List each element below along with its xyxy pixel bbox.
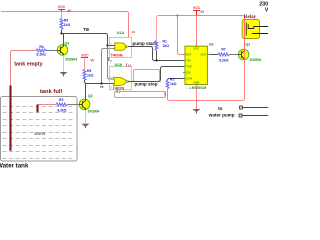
svg-text:LM555CM: LM555CM — [190, 86, 207, 90]
svg-text:Q4: Q4 — [65, 41, 70, 45]
svg-text:RST: RST — [186, 53, 192, 57]
svg-text:VCC: VCC — [81, 54, 89, 58]
svg-text:14: 14 — [128, 63, 132, 67]
svg-text:R3: R3 — [59, 98, 63, 102]
wire U2A pin14 VCC stub — [126, 63, 128, 66]
wire top-left VCC rail — [1, 12, 129, 14]
wire U1A pin14 supply drop — [128, 14, 130, 38]
IC U2A 7402N NOR gate — [110, 63, 135, 91]
wire tank-empty electrode feed — [11, 51, 37, 86]
wire Q4 collector to TE — [63, 34, 65, 45]
power VCC symbol 9V (left) — [58, 10, 65, 12]
wire TF net horizontal — [87, 83, 115, 85]
svg-text:1kΩ: 1kΩ — [170, 82, 177, 86]
svg-text:1kΩ: 1kΩ — [163, 44, 170, 48]
ground below Q4 — [60, 72, 68, 76]
wire Q2 collector to TF — [85, 84, 87, 100]
IC U3 LM555CM — [183, 42, 214, 90]
node U1A pin1 junction — [106, 44, 108, 46]
svg-text:VCC: VCC — [193, 6, 201, 10]
ground stub U2A pin7 — [116, 90, 118, 93]
svg-text:8.2kΩ: 8.2kΩ — [219, 58, 229, 62]
ground below Q2 — [82, 124, 90, 128]
svg-text:2N3904: 2N3904 — [88, 110, 100, 114]
resistor R5 1k (vertical) — [61, 12, 63, 19]
wire Q3 emitter to ground bus — [244, 60, 246, 99]
svg-text:OUT: OUT — [201, 53, 207, 57]
svg-text:TF: TF — [100, 85, 104, 89]
wire R2 to ground bus — [167, 89, 169, 99]
svg-text:to: to — [218, 106, 223, 111]
wire pump stop net — [129, 67, 185, 82]
wire 555 OUT to R7 — [210, 54, 219, 56]
transistor Q2 2N3904 — [79, 94, 99, 114]
svg-text:GND: GND — [194, 81, 200, 85]
node R1 junction — [155, 59, 157, 61]
transistor Q3 2N3904 — [238, 42, 261, 61]
svg-text:Water tank: Water tank — [0, 162, 29, 169]
svg-text:water pump: water pump — [208, 112, 235, 117]
svg-text:U2A: U2A — [115, 63, 123, 67]
wire R3 to Q2 base — [68, 104, 80, 106]
svg-text:2N3904: 2N3904 — [250, 58, 262, 62]
svg-text:7400N: 7400N — [111, 53, 123, 58]
wire R1 feed from rail — [157, 16, 159, 41]
svg-text:U3: U3 — [209, 42, 214, 46]
resistor R7 8.2k (horizontal) — [218, 53, 230, 56]
svg-text:pump start: pump start — [133, 41, 157, 46]
connector terminal 1 — [240, 106, 243, 109]
power VCC symbol 9V (right) — [193, 11, 200, 16]
wire Q4 emitter to ground — [63, 55, 65, 72]
wire TE net horizontal — [62, 34, 108, 36]
svg-text:R4: R4 — [39, 45, 43, 49]
svg-text:VCC: VCC — [58, 5, 66, 9]
svg-text:R1: R1 — [163, 40, 167, 44]
wire R7 to Q3 base — [230, 54, 239, 56]
svg-text:tank full: tank full — [40, 89, 63, 95]
svg-text:Q2: Q2 — [88, 94, 93, 98]
connector terminal 2 — [239, 114, 242, 117]
tank full sensor wire — [38, 104, 57, 106]
wire relay coil to Q3 collector — [244, 18, 246, 50]
svg-text:CON: CON — [186, 77, 192, 81]
svg-text:VCC: VCC — [194, 47, 200, 51]
svg-text:1kΩ: 1kΩ — [87, 73, 94, 77]
power VCC symbol 9V (middle) — [81, 57, 88, 59]
wire 555 RST supply — [178, 16, 185, 55]
wire TE drop to U1A pin1 — [107, 36, 109, 46]
svg-text:1kΩ: 1kΩ — [64, 23, 71, 27]
svg-text:2N3904: 2N3904 — [65, 58, 77, 62]
svg-text:8.2kΩ: 8.2kΩ — [37, 53, 47, 57]
wire R4 to Q4 base — [47, 50, 57, 52]
wire pump start net — [128, 47, 185, 61]
wire 555 GND drop — [196, 86, 198, 109]
wire ground bus bottom — [168, 99, 245, 101]
ground stub U1A pin7 — [108, 58, 110, 62]
water tank body — [1, 97, 78, 162]
node VCC rail junction — [176, 14, 178, 16]
resistor R3 8.2k (horizontal) — [56, 103, 68, 106]
svg-text:R2: R2 — [170, 77, 174, 81]
svg-text:R5: R5 — [64, 18, 68, 22]
electrode tank-empty (long) — [9, 86, 11, 151]
relay K1 — [242, 15, 268, 38]
annotation box red tick — [164, 92, 166, 96]
wire R1 to pump start — [156, 52, 158, 61]
svg-text:tank empty: tank empty — [14, 61, 42, 67]
resistor R6 1k (vertical) — [84, 58, 86, 70]
svg-text:8.2kΩ: 8.2kΩ — [57, 109, 67, 113]
transistor Q4 2N3904 — [57, 41, 77, 61]
resistor R4 8.2k (horizontal) — [36, 49, 47, 52]
svg-text:TRI: TRI — [186, 59, 191, 63]
svg-text:U1A: U1A — [117, 31, 125, 35]
resistor R1 1k (vertical) — [155, 41, 158, 53]
svg-text:14: 14 — [132, 30, 136, 34]
node TE junction — [60, 32, 62, 34]
svg-text:pump stop: pump stop — [135, 82, 158, 87]
svg-text:THR: THR — [186, 65, 192, 69]
resistor R2 1k (vertical) — [168, 79, 185, 81]
ground below 555 — [193, 109, 201, 113]
wire U1A pin1 stub — [108, 45, 115, 47]
electrode tank-full (short) — [36, 105, 38, 113]
wire TE continuation down to U2A input — [108, 46, 115, 80]
wire 555 VCC pin drop — [196, 16, 198, 47]
svg-text:water: water — [33, 131, 46, 136]
wire U1A pin2 from TF net — [102, 49, 115, 84]
svg-text:Q3: Q3 — [246, 42, 251, 46]
svg-text:R6: R6 — [87, 69, 91, 73]
node TF junction — [100, 82, 102, 84]
wire Q2 emitter to ground — [85, 110, 87, 124]
water dashed lines — [3, 107, 76, 159]
svg-text:DIS: DIS — [186, 71, 191, 75]
wire top-right VCC rail — [159, 16, 245, 18]
IC U1A 7400N NAND gate — [110, 31, 136, 57]
svg-text:R7: R7 — [221, 48, 225, 52]
annotation box lower — [115, 92, 166, 98]
svg-text:V: V — [265, 8, 268, 14]
svg-text:7402N: 7402N — [113, 85, 125, 90]
annotation box upper — [134, 70, 160, 82]
svg-text:TE: TE — [83, 27, 90, 33]
